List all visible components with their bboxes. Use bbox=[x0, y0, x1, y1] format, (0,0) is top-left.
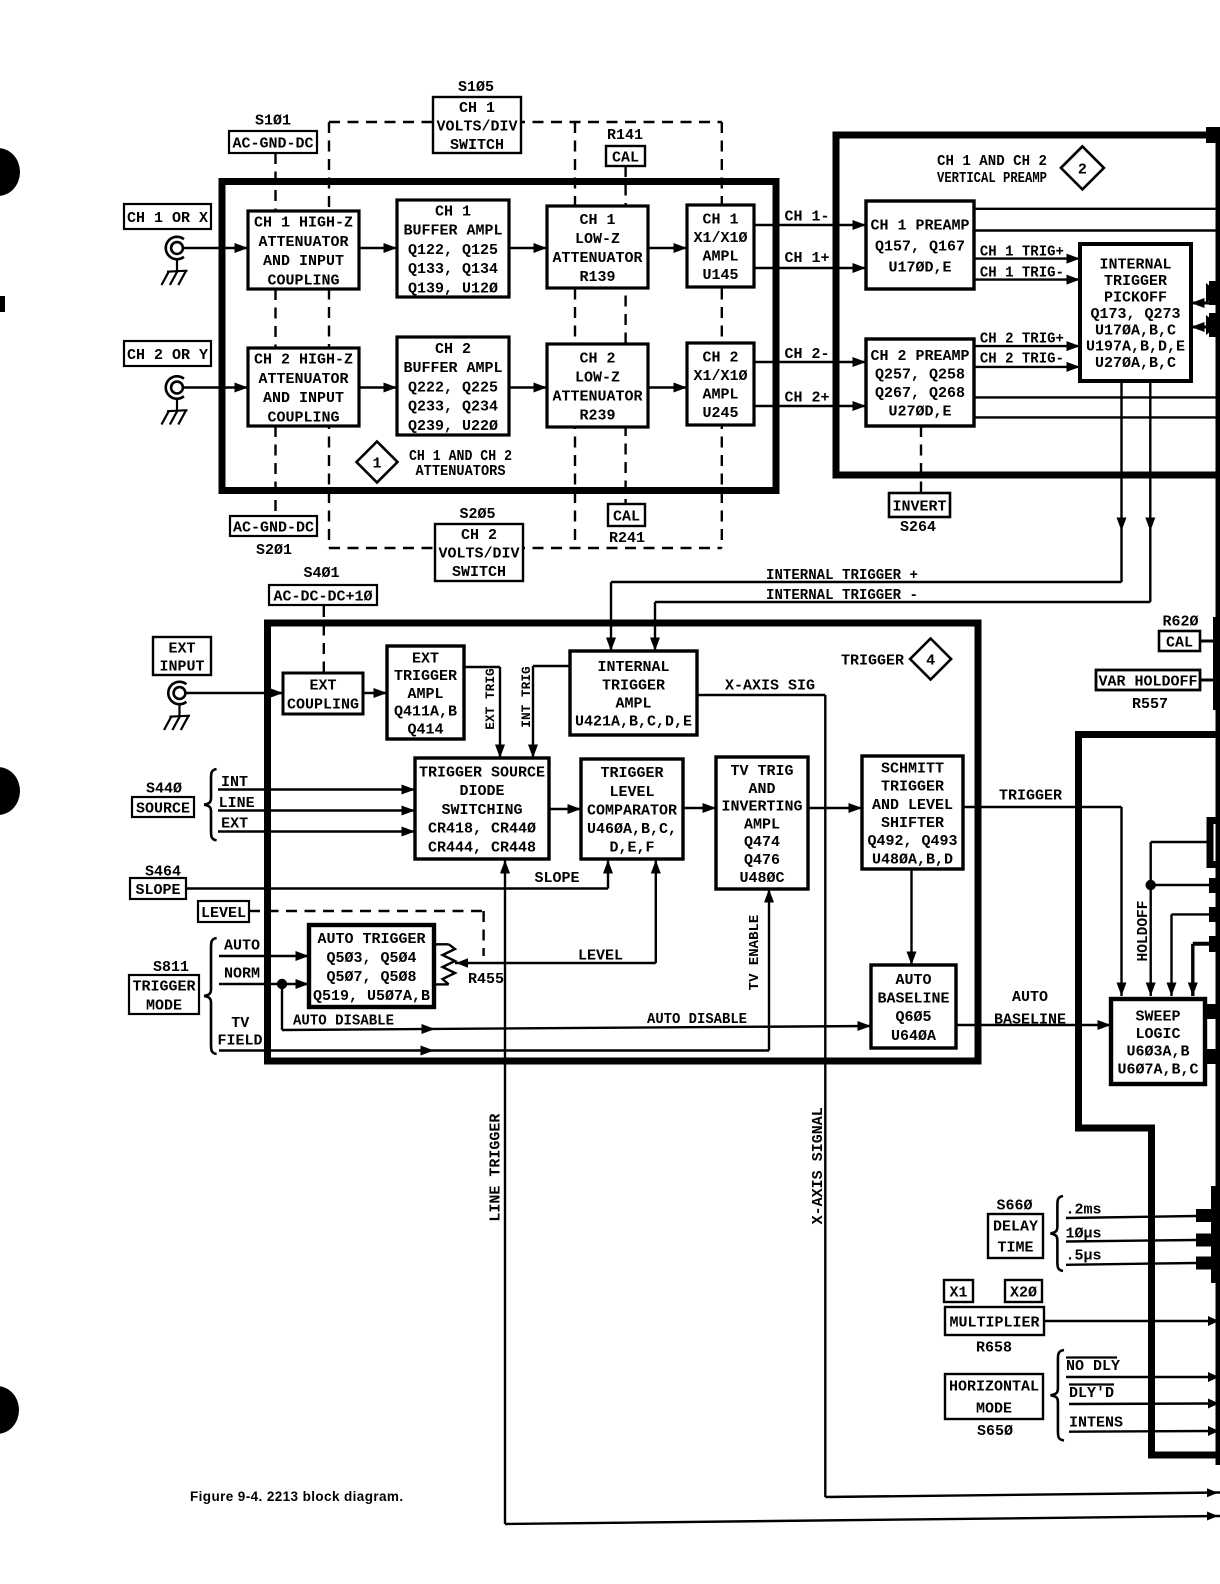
switch S464 SLOPE label box bbox=[130, 878, 186, 899]
svg-text:TRIGGER: TRIGGER bbox=[1104, 273, 1167, 290]
svg-text:1Øμs: 1Øμs bbox=[1066, 1225, 1102, 1242]
wire pickoff right upper from off-page bbox=[1191, 302, 1220, 305]
svg-text:SLOPE: SLOPE bbox=[135, 882, 180, 899]
wire CH 1+ to CH1 preamp bbox=[754, 267, 866, 269]
wire CH1 low-z to X1/X10 ampl bbox=[648, 247, 687, 249]
wire EXT TRIG from ext trigger ampl bbox=[464, 666, 500, 668]
svg-text:S811: S811 bbox=[153, 959, 189, 976]
wire CH 1- to CH1 preamp bbox=[754, 224, 866, 226]
svg-text:Q133, Q134: Q133, Q134 bbox=[408, 261, 498, 278]
svg-text:CH 1: CH 1 bbox=[459, 100, 495, 117]
label box X20 bbox=[1005, 1280, 1042, 1302]
dashed linkage volts/div left vertical bbox=[328, 122, 330, 548]
svg-text:S44Ø: S44Ø bbox=[146, 780, 182, 797]
dashed linkage S401 to ext coupling bbox=[323, 606, 325, 673]
svg-text:U17ØD,E: U17ØD,E bbox=[888, 259, 951, 276]
wire sweep logic output upper to off-page bbox=[1205, 1010, 1220, 1014]
svg-text:NORM: NORM bbox=[224, 965, 260, 982]
page edge fold bar bbox=[1216, 128, 1220, 1465]
svg-text:BASELINE: BASELINE bbox=[994, 1011, 1066, 1028]
svg-text:X1: X1 bbox=[949, 1284, 967, 1301]
svg-text:INVERTING: INVERTING bbox=[721, 799, 802, 816]
connector EXT input BNC and ground bbox=[168, 682, 186, 704]
svg-text:TRIGGER: TRIGGER bbox=[132, 978, 195, 995]
block CH1 X1/X10 ampl U145 bbox=[687, 205, 754, 287]
svg-text:AND LEVEL: AND LEVEL bbox=[872, 797, 953, 814]
wire VAR HOLDOFF to off-page bbox=[1200, 679, 1216, 682]
wire CH 2+ to CH2 preamp bbox=[754, 405, 866, 407]
wire CH2 preamp output upper off-page bbox=[974, 396, 1220, 398]
wire CH1 high-z to buffer ampl bbox=[359, 247, 397, 249]
section box 4 TRIGGER border bbox=[268, 623, 979, 1061]
wire CH1 buffer to low-z attenuator bbox=[509, 247, 547, 249]
block CH2 high-z attenuator and input coupling bbox=[248, 348, 359, 426]
wire AUTO mode to auto trigger bbox=[219, 955, 309, 957]
svg-text:SOURCE: SOURCE bbox=[136, 800, 190, 817]
svg-text:S464: S464 bbox=[145, 863, 181, 880]
wire internal trigger - horizontal bbox=[655, 601, 1150, 603]
svg-text:PICKOFF: PICKOFF bbox=[1104, 290, 1167, 307]
wire holdoff lower horizontal to off-page bbox=[1151, 884, 1214, 886]
dashed linkage S101 AC-GND-DC to CH1 attenuator bbox=[274, 153, 276, 213]
svg-text:AMPL: AMPL bbox=[615, 696, 651, 713]
svg-text:CH 2-: CH 2- bbox=[785, 346, 830, 363]
svg-text:Q519, U5Ø7A,B: Q519, U5Ø7A,B bbox=[313, 988, 430, 1005]
svg-text:CAL: CAL bbox=[612, 149, 639, 166]
svg-text:U197A,B,D,E: U197A,B,D,E bbox=[1086, 339, 1185, 356]
block trigger level comparator U460A,B,C,D,E,F bbox=[581, 759, 683, 859]
svg-text:U17ØA,B,C: U17ØA,B,C bbox=[1095, 322, 1176, 339]
svg-text:AUTO DISABLE: AUTO DISABLE bbox=[293, 1012, 394, 1029]
wire CH2 preamp output lower off-page bbox=[974, 416, 1220, 418]
svg-text:ATTENUATOR: ATTENUATOR bbox=[258, 234, 348, 251]
svg-text:U6Ø3A,B: U6Ø3A,B bbox=[1126, 1044, 1189, 1061]
svg-text:INTERNAL: INTERNAL bbox=[597, 659, 669, 676]
wire SLOPE from slope switch bbox=[186, 887, 608, 889]
svg-text:X2Ø: X2Ø bbox=[1010, 1284, 1037, 1301]
block TV trig and inverting ampl Q474 Q476 U480C bbox=[716, 757, 808, 889]
svg-text:TV ENABLE: TV ENABLE bbox=[747, 915, 763, 991]
switch S440 SOURCE label box bbox=[132, 797, 194, 817]
svg-text:DELAY: DELAY bbox=[993, 1218, 1038, 1235]
svg-text:AUTO TRIGGER: AUTO TRIGGER bbox=[317, 931, 425, 948]
switch S811 TRIGGER MODE label box bbox=[129, 975, 199, 1014]
svg-text:CH 1-: CH 1- bbox=[785, 208, 830, 225]
svg-text:CH 2: CH 2 bbox=[461, 527, 497, 544]
svg-text:INTERNAL TRIGGER +: INTERNAL TRIGGER + bbox=[766, 567, 918, 584]
block CH1 preamp Q157 Q167 U170D,E bbox=[866, 201, 974, 289]
svg-text:AUTO: AUTO bbox=[895, 972, 931, 989]
wire TRIGGER schmitt to sweep logic horizontal bbox=[963, 806, 1122, 808]
svg-text:S2Ø1: S2Ø1 bbox=[256, 542, 292, 559]
svg-text:MODE: MODE bbox=[146, 997, 182, 1014]
block CH1 low-z attenuator R139 bbox=[547, 206, 648, 288]
svg-text:U421A,B,C,D,E: U421A,B,C,D,E bbox=[575, 714, 692, 731]
wire sweep logic output lower to off-page bbox=[1205, 1054, 1220, 1058]
svg-text:CH 1: CH 1 bbox=[702, 212, 738, 229]
wire TRIGGER vertical down to sweep logic bbox=[1120, 807, 1122, 996]
svg-text:AC-GND-DC: AC-GND-DC bbox=[232, 135, 313, 152]
svg-text:ATTENUATOR: ATTENUATOR bbox=[552, 250, 642, 267]
svg-text:LOW-Z: LOW-Z bbox=[575, 369, 620, 386]
svg-text:VERTICAL PREAMP: VERTICAL PREAMP bbox=[937, 171, 1047, 187]
svg-text:TRIGGER SOURCE: TRIGGER SOURCE bbox=[419, 764, 545, 781]
off-page bracket for var holdoff pot bbox=[1207, 817, 1214, 868]
svg-text:EXT: EXT bbox=[309, 677, 336, 694]
svg-text:CR444, CR448: CR444, CR448 bbox=[428, 840, 536, 857]
svg-text:S1Ø1: S1Ø1 bbox=[255, 112, 291, 129]
svg-text:INVERT: INVERT bbox=[892, 498, 946, 515]
wire schmitt to auto baseline vertical bbox=[910, 869, 912, 965]
svg-text:CH 1 OR X: CH 1 OR X bbox=[127, 210, 208, 227]
wire NORM mode to auto trigger bbox=[219, 983, 309, 985]
label box EXT INPUT bbox=[153, 637, 211, 675]
wire TV trig ampl to schmitt trigger bbox=[808, 807, 862, 809]
svg-text:CH 1: CH 1 bbox=[435, 203, 471, 220]
svg-text:R658: R658 bbox=[976, 1339, 1012, 1356]
switch S201 AC-GND-DC label box bbox=[230, 516, 317, 536]
svg-text:AUTO: AUTO bbox=[224, 937, 260, 954]
wire third sweep input horizontal from off-page bbox=[1172, 913, 1215, 915]
svg-text:SLOPE: SLOPE bbox=[534, 870, 579, 887]
svg-text:AMPL: AMPL bbox=[744, 816, 780, 833]
wire AUTO DISABLE horizontal to auto baseline bbox=[282, 1026, 871, 1030]
svg-text:LINE TRIGGER: LINE TRIGGER bbox=[488, 1114, 505, 1222]
svg-text:SWITCHING: SWITCHING bbox=[441, 802, 522, 819]
svg-text:Q173, Q273: Q173, Q273 bbox=[1090, 306, 1180, 323]
svg-text:INTENS: INTENS bbox=[1069, 1414, 1123, 1431]
label box X1 bbox=[944, 1280, 973, 1302]
svg-text:TRIGGER: TRIGGER bbox=[881, 779, 944, 796]
svg-text:TV TRIG: TV TRIG bbox=[730, 763, 793, 780]
svg-text:LOW-Z: LOW-Z bbox=[575, 231, 620, 248]
svg-text:Q257, Q258: Q257, Q258 bbox=[875, 367, 965, 384]
svg-text:D,E,F: D,E,F bbox=[609, 840, 654, 857]
wire LINE TRIGGER bottom from off-page bbox=[505, 1516, 1220, 1524]
svg-text:Q157, Q167: Q157, Q167 bbox=[875, 238, 965, 255]
wire delay time .2ms bbox=[1066, 1216, 1196, 1218]
node diamond 2 vertical preamp bbox=[1061, 146, 1104, 189]
wire delay time 10us bbox=[1066, 1240, 1196, 1242]
wire CH2 buffer to low-z attenuator bbox=[509, 386, 547, 388]
scan artifact binder mark 3 bbox=[0, 1386, 19, 1434]
svg-text:X-AXIS SIG: X-AXIS SIG bbox=[725, 677, 815, 694]
svg-text:EXT: EXT bbox=[221, 815, 248, 832]
svg-text:U64ØA: U64ØA bbox=[891, 1028, 936, 1045]
svg-text:COUPLING: COUPLING bbox=[287, 696, 359, 713]
svg-text:HORIZONTAL: HORIZONTAL bbox=[949, 1378, 1039, 1395]
label box LEVEL control bbox=[198, 901, 249, 922]
svg-text:AMPL: AMPL bbox=[702, 387, 738, 404]
svg-text:R141: R141 bbox=[607, 127, 643, 144]
resistor R658 MULTIPLIER label box bbox=[945, 1307, 1044, 1335]
svg-text:CH 2: CH 2 bbox=[435, 341, 471, 358]
svg-text:U245: U245 bbox=[702, 405, 738, 422]
wire EXT TRIG down to trigger source bbox=[499, 667, 501, 758]
wire CH1 preamp output upper to delay line off-page bbox=[974, 208, 1220, 210]
dashed linkage S205 bottom horizontal bbox=[329, 547, 722, 549]
resistor R455 trigger level pot bbox=[434, 943, 449, 945]
svg-text:LINE: LINE bbox=[219, 795, 255, 812]
wire NO DLY to off-page bbox=[1066, 1376, 1213, 1378]
svg-text:DLY'D: DLY'D bbox=[1069, 1385, 1114, 1402]
svg-text:CH 1 AND CH 2: CH 1 AND CH 2 bbox=[409, 449, 512, 465]
svg-text:1: 1 bbox=[372, 455, 381, 472]
svg-text:INT: INT bbox=[221, 774, 248, 791]
section box 5 sweep/horizontal border bbox=[1079, 735, 1220, 1456]
svg-text:SHIFTER: SHIFTER bbox=[881, 815, 944, 832]
svg-text:CR418, CR44Ø: CR418, CR44Ø bbox=[428, 821, 536, 838]
svg-text:EXT: EXT bbox=[412, 650, 439, 667]
svg-text:4: 4 bbox=[926, 652, 935, 669]
svg-text:MODE: MODE bbox=[976, 1400, 1012, 1417]
svg-text:Q233, Q234: Q233, Q234 bbox=[408, 399, 498, 416]
svg-text:S2Ø5: S2Ø5 bbox=[459, 506, 495, 523]
svg-text:2: 2 bbox=[1078, 161, 1087, 178]
block ext trigger ampl Q411A,B Q414 bbox=[387, 646, 464, 739]
off-page connector blob upper right of pickoff bbox=[1206, 283, 1219, 303]
svg-text:CH 2 TRIG-: CH 2 TRIG- bbox=[980, 350, 1064, 367]
svg-text:AND INPUT: AND INPUT bbox=[263, 390, 344, 407]
wire source INT select bbox=[218, 788, 415, 790]
svg-text:EXT TRIG: EXT TRIG bbox=[483, 668, 498, 730]
page edge blob at preamp top edge bbox=[1206, 127, 1220, 143]
svg-text:INT TRIG: INT TRIG bbox=[519, 666, 534, 728]
svg-text:X1/X1Ø: X1/X1Ø bbox=[693, 230, 747, 247]
svg-text:LEVEL: LEVEL bbox=[609, 784, 654, 801]
switch S650 HORIZONTAL MODE label box bbox=[945, 1374, 1043, 1419]
wire ext coupling to ext trigger ampl bbox=[363, 692, 387, 694]
switch S660 DELAY TIME label box bbox=[988, 1214, 1043, 1258]
wire auto disable vertical from NORM junction bbox=[281, 984, 283, 1030]
block CH2 preamp Q257 Q258 Q267 Q268 U270D,E bbox=[866, 339, 974, 426]
svg-text:ATTENUATOR: ATTENUATOR bbox=[258, 371, 348, 388]
brace delay time S660 bbox=[1051, 1196, 1064, 1271]
svg-text:CH 1 TRIG-: CH 1 TRIG- bbox=[980, 264, 1064, 281]
svg-text:CH 2: CH 2 bbox=[702, 350, 738, 367]
svg-text:S65Ø: S65Ø bbox=[977, 1423, 1013, 1440]
svg-text:CH 1 TRIG+: CH 1 TRIG+ bbox=[980, 243, 1064, 260]
section box 1 CH1 AND CH2 ATTENUATORS border bbox=[222, 182, 776, 491]
wire internal trigger - vertical from pickoff bbox=[1149, 381, 1151, 602]
wire CH 1 TRIG+ preamp to pickoff bbox=[974, 257, 1080, 259]
svg-text:Q6Ø5: Q6Ø5 bbox=[895, 1009, 931, 1026]
svg-text:CH 1 AND CH 2: CH 1 AND CH 2 bbox=[937, 154, 1047, 170]
svg-text:U27ØA,B,C: U27ØA,B,C bbox=[1095, 355, 1176, 372]
wire X-AXIS SIGNAL vertical bbox=[824, 695, 826, 1497]
svg-text:TRIGGER: TRIGGER bbox=[394, 668, 457, 685]
svg-text:X-AXIS SIGNAL: X-AXIS SIGNAL bbox=[810, 1107, 827, 1224]
brace S811 trigger mode AUTO/NORM/TV FIELD bbox=[204, 938, 216, 1054]
resistor R241 CAL label box bbox=[608, 504, 645, 526]
wire internal trigger + horizontal bbox=[611, 581, 1122, 583]
svg-text:VOLTS/DIV: VOLTS/DIV bbox=[438, 545, 519, 562]
svg-text:U48ØC: U48ØC bbox=[739, 870, 784, 887]
svg-text:LOGIC: LOGIC bbox=[1135, 1026, 1180, 1043]
svg-text:S1Ø5: S1Ø5 bbox=[458, 79, 494, 96]
svg-text:CH 1 PREAMP: CH 1 PREAMP bbox=[870, 217, 969, 234]
junction dot holdoff bbox=[1146, 880, 1156, 890]
node diamond 1 attenuators bbox=[357, 442, 398, 483]
wire TV ENABLE up into TV trig ampl bbox=[768, 889, 770, 1051]
svg-text:Q411A,B: Q411A,B bbox=[394, 704, 457, 721]
svg-text:U145: U145 bbox=[702, 267, 738, 284]
svg-text:Q5Ø7, Q5Ø8: Q5Ø7, Q5Ø8 bbox=[326, 969, 416, 986]
svg-text:S264: S264 bbox=[900, 519, 936, 536]
wire CH1 preamp output lower to delay line off-page bbox=[974, 229, 1220, 231]
svg-text:Q139, U12Ø: Q139, U12Ø bbox=[408, 281, 498, 298]
svg-text:CH 2: CH 2 bbox=[579, 350, 615, 367]
svg-text:FIELD: FIELD bbox=[217, 1032, 262, 1049]
scan artifact speck bbox=[0, 296, 5, 312]
svg-text:EXT: EXT bbox=[168, 640, 195, 657]
svg-text:Q239, U22Ø: Q239, U22Ø bbox=[408, 418, 498, 435]
wire SLOPE up into comparator bbox=[607, 860, 609, 889]
wire ext input BNC to ext coupling bbox=[186, 692, 284, 694]
svg-text:Q476: Q476 bbox=[744, 852, 780, 869]
resistor R629 CAL label box bbox=[1159, 631, 1200, 651]
wire R455 wiper to LEVEL comparator bbox=[455, 962, 656, 964]
block sweep logic U603A,B U607A,B,C bbox=[1111, 999, 1205, 1084]
overline NO DLY bbox=[1066, 1356, 1117, 1358]
switch S105 CH1 volts/div switch box bbox=[433, 97, 521, 153]
svg-text:CH 1: CH 1 bbox=[579, 212, 615, 229]
svg-text:BUFFER AMPL: BUFFER AMPL bbox=[403, 360, 502, 377]
svg-text:CH 1+: CH 1+ bbox=[785, 250, 830, 267]
block CH1 high-z attenuator and input coupling bbox=[248, 211, 359, 289]
svg-text:Q474: Q474 bbox=[744, 834, 780, 851]
svg-text:CH 1 HIGH-Z: CH 1 HIGH-Z bbox=[254, 215, 353, 232]
svg-text:AMPL: AMPL bbox=[407, 686, 443, 703]
svg-text:BASELINE: BASELINE bbox=[877, 991, 949, 1008]
block ext coupling bbox=[283, 673, 363, 714]
svg-text:TRIGGER: TRIGGER bbox=[602, 677, 665, 694]
node diamond 4 trigger bbox=[910, 639, 951, 680]
wiper arrow R455 bbox=[456, 958, 468, 968]
block CH2 low-z attenuator R239 bbox=[547, 344, 648, 427]
wire INT TRIG from internal trigger ampl bbox=[533, 665, 570, 667]
wire CH 2 TRIG+ preamp to pickoff bbox=[974, 345, 1080, 347]
dashed linkage volts/div to low-z attenuators bbox=[574, 122, 576, 548]
svg-text:CH 2 OR Y: CH 2 OR Y bbox=[127, 347, 208, 364]
wire internal trigger - down to internal trigger ampl bbox=[654, 602, 656, 651]
resistor R141 CAL label box bbox=[606, 146, 645, 166]
wire HOLDOFF vertical to sweep logic bbox=[1149, 842, 1151, 996]
svg-text:U6Ø7A,B,C: U6Ø7A,B,C bbox=[1117, 1061, 1198, 1078]
dashed linkage S101/S201 between attenuators bbox=[274, 289, 276, 348]
svg-text:Q222, Q225: Q222, Q225 bbox=[408, 379, 498, 396]
svg-text:S4Ø1: S4Ø1 bbox=[303, 565, 339, 582]
svg-text:AND: AND bbox=[748, 781, 775, 798]
svg-text:Q267, Q268: Q267, Q268 bbox=[875, 385, 965, 402]
svg-text:AC-GND-DC: AC-GND-DC bbox=[233, 519, 314, 536]
section box 2 CH1 AND CH2 VERTICAL PREAMP border bbox=[836, 135, 1220, 475]
overline DLY'D bbox=[1069, 1383, 1114, 1385]
switch S401 AC-DC-DC+10 label box bbox=[269, 585, 377, 605]
svg-text:Q5Ø3, Q5Ø4: Q5Ø3, Q5Ø4 bbox=[326, 950, 416, 967]
svg-text:R139: R139 bbox=[579, 269, 615, 286]
svg-text:SWITCH: SWITCH bbox=[450, 137, 504, 154]
off-page connector blob lower right of pickoff bbox=[1206, 315, 1219, 335]
svg-text:R455: R455 bbox=[468, 971, 504, 988]
svg-text:COMPARATOR: COMPARATOR bbox=[587, 802, 677, 819]
svg-text:AUTO: AUTO bbox=[1012, 989, 1048, 1006]
wire third sweep input vertical bbox=[1170, 914, 1172, 996]
brace S440 source INT/LINE/EXT bbox=[204, 769, 216, 840]
svg-text:BUFFER AMPL: BUFFER AMPL bbox=[403, 223, 502, 240]
svg-text:R557: R557 bbox=[1132, 696, 1168, 713]
dashed linkage S201 to AC-GND-DC lower bbox=[274, 426, 276, 514]
dashed linkage volts/div to X1/X10 ampl bbox=[721, 122, 723, 548]
wire CH1 input BNC to high-z attenuator bbox=[183, 247, 248, 249]
dashed linkage S105 top horizontal bbox=[329, 121, 722, 123]
svg-text:NO DLY: NO DLY bbox=[1066, 1358, 1120, 1375]
wire X-AXIS SIGNAL bottom to off-page bbox=[825, 1493, 1220, 1498]
svg-text:COUPLING: COUPLING bbox=[267, 409, 339, 426]
svg-text:MULTIPLIER: MULTIPLIER bbox=[949, 1314, 1039, 1331]
svg-text:TV: TV bbox=[231, 1015, 249, 1032]
svg-text:COUPLING: COUPLING bbox=[267, 272, 339, 289]
svg-text:S66Ø: S66Ø bbox=[996, 1197, 1032, 1214]
svg-text:X1/X1Ø: X1/X1Ø bbox=[693, 368, 747, 385]
svg-text:INTERNAL: INTERNAL bbox=[1099, 257, 1171, 274]
wire TV FIELD horizontal bbox=[219, 1049, 769, 1051]
svg-text:CH 2+: CH 2+ bbox=[785, 389, 830, 406]
svg-text:ATTENUATOR: ATTENUATOR bbox=[552, 388, 642, 405]
svg-text:Q492, Q493: Q492, Q493 bbox=[867, 833, 957, 850]
block CH2 X1/X10 ampl U245 bbox=[687, 343, 754, 425]
svg-text:TRIGGER: TRIGGER bbox=[600, 765, 663, 782]
svg-text:CAL: CAL bbox=[1166, 634, 1193, 651]
svg-text:.5μs: .5μs bbox=[1066, 1247, 1102, 1264]
dashed linkage S264 invert to CH2 preamp bbox=[920, 426, 922, 492]
scan artifact binder mark 2 bbox=[0, 767, 20, 815]
svg-text:TRIGGER: TRIGGER bbox=[841, 652, 904, 669]
svg-text:SCHMITT: SCHMITT bbox=[881, 760, 944, 777]
block schmitt trigger and level shifter Q492 Q493 U480A,B,D bbox=[862, 756, 963, 869]
wire source LINE select bbox=[218, 809, 415, 811]
block auto baseline Q605 U640A bbox=[871, 965, 956, 1048]
svg-text:U48ØA,B,D: U48ØA,B,D bbox=[872, 851, 953, 868]
dashed linkage R141 CAL to R241 CAL bbox=[624, 166, 626, 504]
connector CH2 input BNC and ground bbox=[166, 376, 184, 398]
block trigger source diode switching CR418 CR440 CR444 CR448 bbox=[415, 758, 549, 859]
block internal trigger pickoff Q173 Q273 U170A,B,C U197A,B,D,E U270A,B,C bbox=[1080, 244, 1191, 381]
junction dot NORM / auto disable bbox=[277, 979, 287, 989]
svg-text:SWEEP: SWEEP bbox=[1135, 1009, 1180, 1026]
svg-text:INTERNAL TRIGGER -: INTERNAL TRIGGER - bbox=[766, 587, 918, 604]
switch S264 INVERT label box bbox=[889, 493, 950, 517]
svg-text:U27ØD,E: U27ØD,E bbox=[888, 404, 951, 421]
block CH1 buffer ampl Q122 Q125 Q133 Q134 Q139 U120 bbox=[397, 200, 509, 297]
wire INT TRIG down to trigger source bbox=[532, 666, 534, 758]
wire LEVEL up into comparator bbox=[655, 860, 657, 963]
wire DLY'D to off-page bbox=[1069, 1402, 1213, 1405]
wire holdoff upper horizontal to VAR HOLDOFF bracket bbox=[1151, 841, 1207, 843]
page edge bar thick segment near CAL/VAR HOLDOFF bbox=[1213, 617, 1220, 710]
wire fourth sweep input vertical bbox=[1191, 944, 1194, 996]
svg-text:LEVEL: LEVEL bbox=[201, 905, 246, 922]
wire pickoff right lower from off-page bbox=[1191, 326, 1220, 329]
wire AUTO BASELINE to sweep logic bbox=[956, 1024, 1111, 1026]
svg-text:Figure 9-4. 2213 block diagram: Figure 9-4. 2213 block diagram. bbox=[190, 1489, 403, 1504]
wire X-AXIS SIG from internal trigger ampl bbox=[697, 694, 825, 696]
dashed linkage LEVEL control vertical to R455 bbox=[482, 911, 484, 956]
block internal trigger ampl U421A,B,C,D,E bbox=[570, 651, 697, 735]
wire R629 CAL to off-page bbox=[1200, 640, 1216, 643]
svg-text:Q414: Q414 bbox=[407, 722, 443, 739]
brace horizontal mode S650 bbox=[1051, 1350, 1065, 1441]
